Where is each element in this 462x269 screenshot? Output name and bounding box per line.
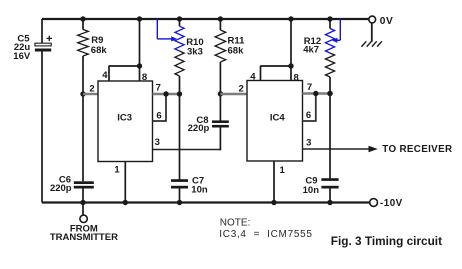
svg-text:IC3,4 = ICM7555: IC3,4 = ICM7555 bbox=[219, 229, 312, 240]
svg-text:TRANSMITTER: TRANSMITTER bbox=[50, 232, 118, 243]
svg-text:8: 8 bbox=[294, 72, 299, 83]
svg-text:2: 2 bbox=[238, 84, 243, 95]
svg-text:10n: 10n bbox=[303, 185, 320, 196]
svg-text:4: 4 bbox=[102, 70, 108, 81]
svg-text:6: 6 bbox=[306, 110, 311, 121]
svg-text:68k: 68k bbox=[228, 45, 245, 56]
svg-text:1: 1 bbox=[279, 165, 285, 176]
svg-text:3: 3 bbox=[306, 137, 311, 148]
svg-text:Fig. 3 Timing circuit: Fig. 3 Timing circuit bbox=[331, 234, 442, 248]
svg-text:-10V: -10V bbox=[380, 198, 403, 209]
svg-text:10n: 10n bbox=[191, 184, 208, 195]
svg-text:8: 8 bbox=[142, 72, 147, 83]
svg-text:4: 4 bbox=[250, 72, 256, 83]
svg-text:TO RECEIVER: TO RECEIVER bbox=[382, 144, 452, 155]
svg-text:3: 3 bbox=[155, 137, 160, 148]
svg-text:7: 7 bbox=[156, 83, 161, 94]
svg-text:7: 7 bbox=[307, 82, 312, 93]
svg-text:IC3: IC3 bbox=[117, 113, 132, 124]
svg-text:2: 2 bbox=[89, 84, 94, 95]
svg-text:6: 6 bbox=[156, 110, 161, 121]
svg-text:220p: 220p bbox=[50, 183, 72, 194]
svg-text:68k: 68k bbox=[91, 45, 108, 56]
svg-text:3k3: 3k3 bbox=[187, 46, 203, 57]
svg-text:NOTE:: NOTE: bbox=[220, 217, 251, 228]
svg-text:IC4: IC4 bbox=[270, 113, 286, 124]
svg-text:16V: 16V bbox=[13, 51, 31, 62]
svg-text:0V: 0V bbox=[380, 16, 393, 27]
svg-text:1: 1 bbox=[114, 164, 120, 175]
svg-text:4k7: 4k7 bbox=[303, 44, 319, 55]
svg-text:220p: 220p bbox=[188, 123, 210, 134]
